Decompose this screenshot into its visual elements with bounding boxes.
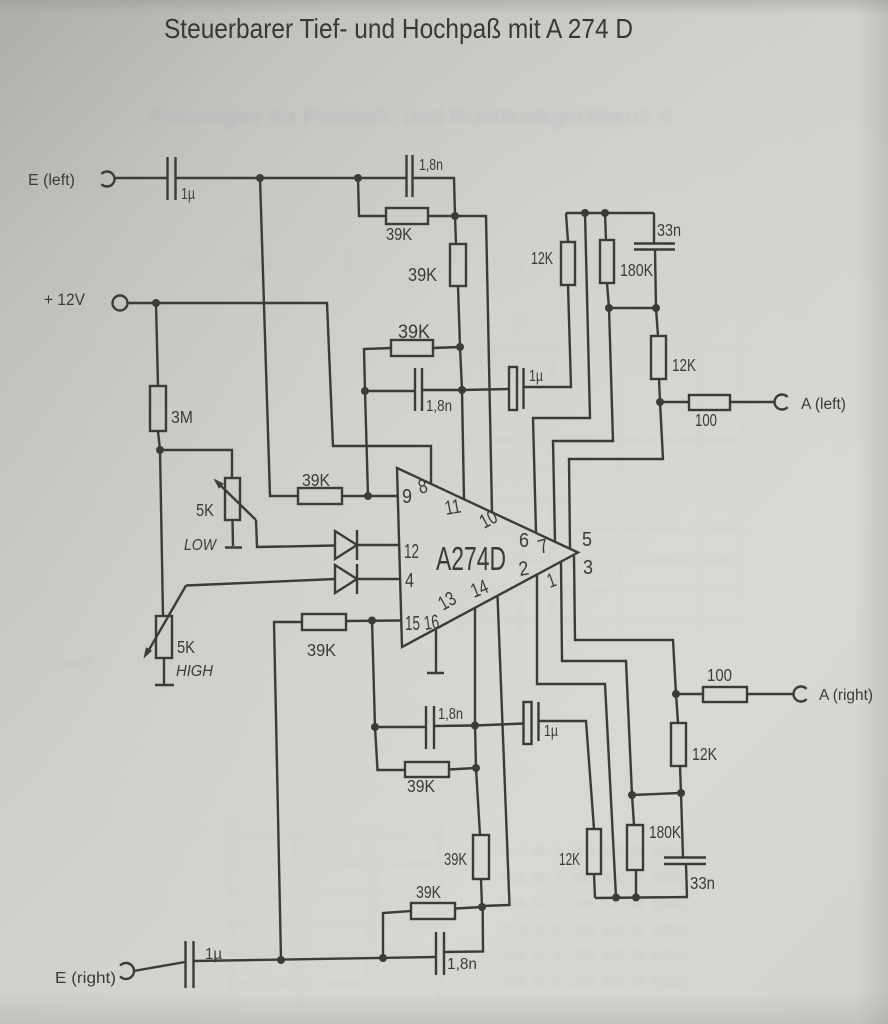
- pot P1 wiper arrow: [216, 481, 256, 520]
- svg-text:38,2: 38,2: [60, 655, 94, 671]
- svg-text:5: 5: [582, 529, 592, 551]
- resistor R10 100 body: [703, 687, 747, 702]
- wire R4 left corner: [364, 348, 391, 391]
- svg-text:Preisregler für Fernseh- und R: Preisregler für Fernseh- und Rundfunkger…: [148, 106, 618, 129]
- wire N2 down to R3: [455, 216, 456, 244]
- wire E(left) node to R1: [260, 178, 298, 496]
- resistor R6 12K body: [561, 242, 575, 285]
- svg-text:39K: 39K: [408, 265, 437, 285]
- node TR2 junction: [601, 209, 609, 217]
- wire R3 down chain: [458, 286, 460, 347]
- wire pin15 node down to B2: [372, 621, 375, 728]
- wire pin2 chain: [537, 575, 616, 898]
- wire C9 to N2b corner: [444, 907, 483, 952]
- node FB4 junction: [628, 791, 636, 799]
- node A2 junction: [458, 386, 466, 394]
- svg-text:12K: 12K: [531, 248, 553, 268]
- svg-text:3M: 3M: [171, 407, 193, 427]
- capacitor C5 33n plates: [634, 242, 675, 244]
- ground bar P2: [155, 684, 174, 687]
- svg-text:A (right): A (right): [819, 687, 873, 704]
- wire C10 to A3: [434, 724, 475, 727]
- wire N2 jog to pin 10: [455, 216, 492, 513]
- svg-text:9: 9: [402, 486, 412, 508]
- wire TR2 to R7: [605, 213, 606, 240]
- node BR2 junction: [632, 894, 640, 902]
- capacitor C3 1,8n plates: [414, 368, 416, 411]
- wire R10 to A(right): [747, 693, 794, 695]
- wire R8 to node OUTL: [659, 379, 660, 402]
- svg-text:15: 15: [405, 613, 420, 635]
- wire top rail E(left): [176, 177, 407, 179]
- node M1 junction: [277, 956, 285, 964]
- resistor R14 39K body: [302, 614, 346, 630]
- svg-text:+ 12V: + 12V: [44, 291, 85, 309]
- node N2 junction: [451, 212, 459, 220]
- wire FB4 to FB3: [632, 793, 681, 795]
- connector A (right): [793, 687, 806, 702]
- wire A2 to C4: [462, 389, 509, 390]
- node BR1 junction: [612, 894, 620, 902]
- junction pin9 node: [364, 492, 372, 500]
- resistor R15 39K body: [405, 762, 449, 777]
- wire L1 down to HIGH pot: [160, 450, 163, 616]
- wire A2 to pin 11: [462, 390, 464, 500]
- wire FB1 to FB2: [609, 307, 656, 309]
- top rail left-ch: [566, 212, 654, 214]
- svg-text:39K: 39K: [386, 224, 412, 244]
- wire E(left) to C1: [115, 177, 168, 179]
- node B1 junction: [361, 387, 369, 395]
- resistor R13 12K body: [587, 829, 601, 874]
- resistor R11 12K body: [671, 723, 686, 766]
- svg-text:A274D: A274D: [436, 540, 506, 577]
- capacitor C8 1µ plates: [184, 941, 186, 988]
- svg-text:39K: 39K: [307, 640, 336, 660]
- svg-text:HIGH: HIGH: [176, 663, 213, 680]
- resistor R1 39K body: [298, 488, 342, 504]
- svg-text:33n: 33n: [690, 873, 715, 893]
- wire pin7 chain: [553, 308, 613, 542]
- wire pin13 down chain: [474, 608, 476, 726]
- wire R16 to N2b: [481, 879, 482, 907]
- svg-text:100: 100: [695, 410, 717, 430]
- node A3 junction: [471, 722, 479, 730]
- diode D1: [335, 531, 357, 559]
- wire 12V down to R5: [156, 303, 158, 386]
- wire R1 to pin 9: [342, 495, 398, 497]
- svg-text:E (left): E (left): [28, 172, 75, 189]
- svg-text:1,8n: 1,8n: [447, 956, 477, 973]
- connector E (left): [101, 172, 114, 187]
- svg-text:100: 100: [707, 665, 732, 685]
- capacitor C2 1,8n plates: [405, 155, 407, 197]
- wire R6 down to C4: [524, 285, 572, 387]
- node N1a junction: [256, 174, 264, 182]
- wire C5 to node FB2: [655, 250, 656, 309]
- bottom rail right-ch: [595, 897, 688, 898]
- wire B1 down to pin9 node: [365, 391, 368, 496]
- node A4 junction: [472, 764, 480, 772]
- svg-text:54,6 1 38 10,8 162: 54,6 1 38 10,8 162: [502, 844, 687, 859]
- svg-text:2,2K: 2,2K: [236, 255, 275, 271]
- wire L1 to LOW pot: [160, 450, 232, 478]
- wire C3 to A2: [422, 389, 462, 391]
- diode D2: [335, 565, 357, 593]
- node FB1 junction: [605, 304, 613, 312]
- svg-text:5K: 5K: [177, 637, 195, 657]
- wire 12V rail right: [156, 303, 431, 485]
- node FB3 junction: [677, 789, 685, 797]
- svg-text:12K: 12K: [672, 355, 696, 375]
- wire R14 to pin 15: [346, 619, 401, 622]
- svg-text:5K: 5K: [196, 500, 214, 520]
- node A1 junction: [456, 343, 464, 351]
- svg-text:A (left): A (left): [801, 396, 846, 413]
- capacitor C4 1µ left plate: [509, 367, 517, 410]
- wire OUTR to R10: [676, 693, 703, 695]
- wire A4 to R16: [476, 768, 480, 835]
- wire P2 ground stem: [163, 658, 165, 684]
- svg-text:LOW: LOW: [184, 537, 218, 554]
- svg-text:12K: 12K: [559, 849, 580, 869]
- wire wiper to diode D1: [256, 520, 335, 547]
- wire bottom rail E(right): [194, 957, 437, 961]
- wire R7 to node FB1: [607, 283, 609, 308]
- wire R12 to bottom rail: [635, 870, 637, 898]
- wire B2 to C10: [375, 726, 426, 728]
- potentiometer P2 5K body: [156, 616, 172, 658]
- wire rail to C5: [653, 213, 655, 243]
- node L1 junction: [156, 446, 164, 454]
- wire FB3 to C6: [681, 793, 683, 858]
- svg-text:103 5: 103 5: [612, 109, 672, 126]
- svg-text:3: 3: [583, 557, 593, 579]
- wire M1 up to R14: [274, 622, 302, 960]
- resistor R4 39K body: [391, 340, 433, 356]
- wire N2b jog to pin 14: [482, 596, 510, 907]
- resistor R16 39K body: [473, 835, 489, 879]
- wire R15 to A4: [449, 768, 476, 770]
- wire R2 to N2: [428, 215, 455, 217]
- wire pin5 chain: [569, 402, 663, 549]
- wire D1 to pin 12: [357, 544, 399, 546]
- svg-text:180K: 180K: [649, 822, 681, 842]
- wire E(right) to C8: [134, 962, 186, 971]
- resistor R12 180K body: [627, 825, 643, 870]
- ground bar P1: [225, 546, 242, 549]
- wire rail to R6: [566, 213, 568, 242]
- wire A3 to A4: [475, 726, 476, 769]
- capacitor C6 33n plates: [664, 856, 706, 858]
- svg-text:39K: 39K: [416, 882, 441, 902]
- svg-text:6: 6: [519, 530, 529, 552]
- svg-text:4: 4: [405, 570, 414, 592]
- pot P2 wiper arrow: [146, 586, 186, 656]
- capacitor C7 1µ right plate: [537, 702, 539, 741]
- resistor R5 3M body: [150, 386, 166, 431]
- svg-text:39K: 39K: [444, 849, 467, 869]
- wire R5 to node L1: [158, 431, 160, 450]
- node FB2 junction: [652, 304, 660, 312]
- wire rail to R13: [594, 874, 595, 898]
- wire B2 jog to R15: [375, 727, 405, 770]
- wire OUTL to R9: [660, 401, 689, 403]
- svg-text:54,6 1 38 10,8 162: 54,6 1 38 10,8 162: [502, 922, 687, 937]
- wire A3 to C7: [475, 724, 524, 726]
- svg-text:39K: 39K: [398, 322, 430, 343]
- resistor R7 180K body: [600, 240, 614, 283]
- node N1b junction: [354, 174, 362, 182]
- potentiometer P1 5K body: [225, 478, 240, 520]
- wire C2 to node N2: [413, 178, 456, 216]
- capacitor C10 1,8n plates: [425, 706, 427, 749]
- svg-text:1,8n: 1,8n: [426, 398, 452, 415]
- svg-text:39K: 39K: [407, 776, 435, 796]
- wire R4 right to A1: [433, 347, 460, 348]
- capacitor C1 1µ plates: [166, 157, 168, 200]
- wire OUTR to R11: [676, 694, 678, 723]
- wire M2 up to R17: [383, 911, 411, 958]
- wire pin6 chain: [533, 213, 590, 533]
- svg-text:Steuerbarer Tief- und Hochpaß: Steuerbarer Tief- und Hochpaß mit A 274 …: [164, 13, 633, 44]
- resistor R2 39K body: [386, 208, 428, 224]
- node OUTL junction: [656, 398, 664, 406]
- wire D2 to pin 4: [357, 578, 400, 580]
- wire FB2 to R8: [656, 308, 658, 336]
- wire B1 to C3: [365, 390, 415, 392]
- svg-text:180K: 180K: [620, 260, 653, 280]
- wire A1 to A2: [460, 347, 462, 390]
- svg-text:12K: 12K: [692, 744, 717, 764]
- connector A (left): [774, 395, 787, 410]
- resistor R8 12K body: [651, 336, 666, 379]
- capacitor C4 1µ right plate: [522, 368, 524, 409]
- ground bar pin16: [427, 672, 444, 675]
- node M2 junction: [379, 954, 387, 962]
- node OUTR junction: [672, 690, 680, 698]
- wire FB4 to R12: [632, 795, 634, 825]
- node 12V junction: [152, 299, 160, 307]
- svg-text:16: 16: [423, 611, 441, 635]
- node pin15 junction: [368, 617, 376, 625]
- capacitor C9 1,8n plates: [435, 932, 437, 975]
- ghost bleed-through artifacts: [60, 106, 748, 1012]
- wire R17 to N2b: [455, 907, 483, 909]
- svg-text:1,8n: 1,8n: [419, 157, 443, 174]
- svg-text:39K: 39K: [302, 470, 330, 490]
- terminal +12V circle: [113, 296, 128, 311]
- wire C6 to bottom rail: [686, 864, 687, 897]
- svg-text:1µ: 1µ: [181, 186, 195, 203]
- wire R13 up to C7: [539, 721, 595, 829]
- wire pin3 chain: [574, 556, 676, 694]
- resistor R17 39K body: [411, 903, 455, 919]
- capacitor C7 1µ left plate: [524, 702, 532, 744]
- svg-text:54,6 1 38 10,8 162: 54,6 1 38 10,8 162: [502, 974, 687, 989]
- svg-text:33n: 33n: [657, 220, 681, 240]
- wire R9 to A(left): [730, 401, 775, 403]
- svg-text:E (right): E (right): [55, 970, 116, 987]
- svg-text:1µ: 1µ: [529, 368, 543, 385]
- svg-text:54,6 1 38 10,8 162: 54,6 1 38 10,8 162: [502, 948, 687, 963]
- wire P1 ground stem: [231, 520, 234, 546]
- node B2 junction: [371, 723, 379, 731]
- node N2b junction: [478, 903, 486, 911]
- svg-text:1,8n: 1,8n: [438, 706, 463, 723]
- pin 16 ground stem: [435, 630, 437, 672]
- wire pin1 chain: [561, 562, 632, 795]
- op-amp U1 A274D body: [397, 468, 578, 647]
- wire N1b down to R2: [358, 178, 386, 216]
- resistor R3 39K body: [450, 244, 466, 286]
- wire 12V to node: [128, 302, 157, 304]
- wire R11 to node FB3: [680, 766, 681, 793]
- connector E (right): [120, 963, 134, 979]
- svg-text:12: 12: [404, 541, 419, 563]
- svg-text:1µ: 1µ: [544, 723, 558, 740]
- resistor R9 100 body: [689, 395, 730, 410]
- node TR1 junction: [581, 209, 589, 217]
- wire wiper to diode D2: [186, 579, 335, 586]
